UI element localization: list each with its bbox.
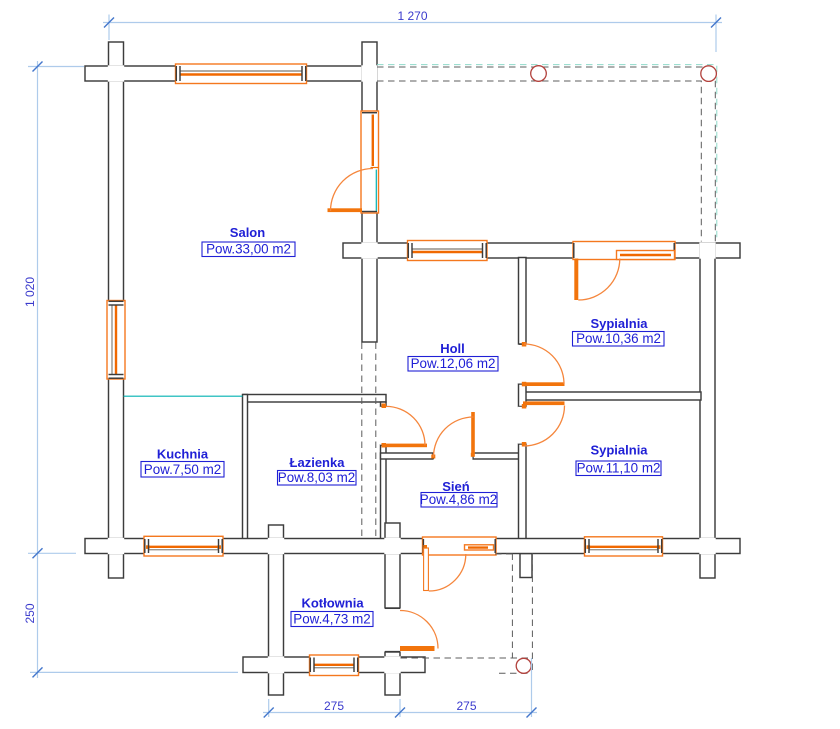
sien hall door bbox=[431, 412, 475, 460]
dimension left line bbox=[37, 61, 39, 678]
dimension top tick left bbox=[104, 18, 114, 28]
terrace top inner gray dashed bbox=[377, 81, 701, 242]
label bedroom2 area box bbox=[576, 461, 661, 476]
dimension top line bbox=[103, 22, 722, 24]
salon terrace door arc bbox=[331, 169, 374, 212]
terrace post circle 1 bbox=[531, 66, 547, 82]
wall sien left bbox=[381, 445, 387, 539]
label bathroom area box bbox=[278, 471, 357, 486]
junction patch mid-right bbox=[699, 242, 715, 258]
salon terrace door and window unit bbox=[361, 111, 379, 213]
junction patch top-left bbox=[108, 65, 124, 81]
dimension top extension left bbox=[108, 15, 110, 41]
terrace bottom gray dashed horizontal short bbox=[495, 553, 512, 555]
svg-text:1 270: 1 270 bbox=[397, 9, 427, 23]
window kitchen bottom bbox=[144, 536, 223, 556]
svg-text:Pow.4,86 m2: Pow.4,86 m2 bbox=[420, 492, 497, 507]
dimension left tick bottom bbox=[33, 667, 43, 677]
label sien area box bbox=[421, 493, 497, 508]
bedroom terrace door leaf bbox=[574, 259, 578, 301]
salon hall virtual boundary dashed bbox=[361, 343, 363, 539]
svg-text:Pow.33,00 m2: Pow.33,00 m2 bbox=[206, 242, 291, 257]
salon terrace door leaf bbox=[328, 208, 363, 212]
wall sien top right part bbox=[473, 453, 519, 459]
label salon area box bbox=[202, 242, 295, 257]
wall stub below sien bbox=[520, 554, 532, 578]
svg-text:Sypialnia: Sypialnia bbox=[590, 316, 648, 331]
window salon top bbox=[176, 64, 307, 84]
kitchen salon boundary cyan line bbox=[124, 395, 243, 397]
dimension left extension bottom bbox=[30, 671, 238, 673]
bedroom1 door bbox=[518, 342, 565, 386]
wall kitchen-bathroom bbox=[243, 395, 248, 540]
terrace bottom post circle bbox=[516, 658, 531, 673]
terrace bottom gray dashed right bbox=[531, 554, 533, 673]
svg-text:275: 275 bbox=[324, 699, 344, 713]
sien exterior door and window unit bbox=[423, 537, 497, 555]
wall boiler right lower bbox=[385, 652, 400, 695]
svg-text:Pow.11,10 m2: Pow.11,10 m2 bbox=[577, 461, 661, 476]
sien exterior door arc bbox=[429, 554, 466, 591]
dimension bottom tick 3 bbox=[527, 708, 537, 718]
wall right exterior bbox=[700, 243, 715, 578]
wall left exterior bbox=[109, 42, 124, 578]
wall bottom exterior bbox=[85, 539, 740, 554]
window bedroom2 bottom bbox=[585, 537, 663, 556]
dimension top extension right bbox=[715, 15, 717, 53]
svg-text:Pow.4,73 m2: Pow.4,73 m2 bbox=[293, 612, 370, 627]
dimension bottom extension 1 bbox=[268, 699, 270, 717]
terrace bottom gray dashed left bbox=[511, 554, 513, 658]
svg-text:Holl: Holl bbox=[440, 341, 465, 356]
terrace bottom gray dashed horizontal bbox=[401, 657, 532, 659]
window boiler bottom bbox=[310, 655, 359, 676]
window salon left bbox=[107, 301, 125, 380]
junction patch bottom-boilerleft bbox=[268, 538, 284, 554]
wall bathroom top bbox=[243, 395, 386, 403]
wall sien top left part bbox=[381, 453, 434, 459]
dimension bottom tick 1 bbox=[264, 708, 274, 718]
wall hall-bedroom upper bbox=[519, 258, 527, 345]
wall bedroom divider bbox=[521, 392, 701, 400]
terrace top teal dashed bbox=[377, 65, 717, 242]
junction patch top-salon bbox=[361, 65, 377, 81]
svg-text:275: 275 bbox=[456, 699, 476, 713]
boiler door bbox=[385, 608, 439, 651]
dimension bottom extension 2 bbox=[399, 699, 401, 717]
terrace top outer gray dashed bbox=[377, 67, 715, 242]
sien exterior door leaf bbox=[424, 548, 429, 591]
dimension left extension middle bbox=[28, 552, 76, 554]
svg-text:250: 250 bbox=[23, 603, 37, 623]
window hall top bbox=[408, 241, 488, 261]
wall salon right lower bbox=[362, 212, 377, 342]
label hall area box bbox=[408, 357, 498, 372]
wall hall-bedroom middle jamb bbox=[519, 384, 527, 407]
wall salon right upper bbox=[362, 42, 377, 112]
bathroom door bbox=[380, 404, 427, 448]
junction patch boilerbottom-right bbox=[384, 656, 400, 673]
wall boiler bottom bbox=[243, 657, 425, 673]
svg-text:Pow.10,36 m2: Pow.10,36 m2 bbox=[576, 331, 661, 346]
wall bathroom door jamb bbox=[381, 402, 387, 407]
wall boiler right upper bbox=[385, 523, 400, 608]
label bedroom1 area box bbox=[573, 332, 665, 347]
dimension bottom tick 2 bbox=[395, 708, 405, 718]
wall middle horizontal bbox=[343, 243, 740, 258]
terrace post circle 2 bbox=[701, 66, 717, 82]
terrace bottom gray dashed bottom edge bbox=[499, 672, 532, 674]
junction patch boilerbottom-left bbox=[268, 656, 284, 673]
svg-text:1 020: 1 020 bbox=[23, 277, 37, 307]
junction patch bottom-left bbox=[108, 538, 124, 554]
svg-text:Łazienka: Łazienka bbox=[290, 455, 346, 470]
junction patch bottom-right bbox=[699, 538, 715, 554]
dimension left tick top bbox=[33, 62, 43, 72]
svg-text:Sypialnia: Sypialnia bbox=[590, 443, 648, 458]
svg-text:Pow.12,06 m2: Pow.12,06 m2 bbox=[411, 356, 496, 371]
label kitchen area box bbox=[141, 462, 224, 478]
wall boiler left bbox=[269, 525, 284, 695]
svg-text:Pow.7,50 m2: Pow.7,50 m2 bbox=[144, 462, 221, 477]
bedroom2 door bbox=[518, 401, 565, 446]
svg-text:Pow.8,03 m2: Pow.8,03 m2 bbox=[278, 470, 355, 485]
bedroom terrace door and window unit bbox=[573, 242, 675, 260]
junction patch mid-salon bbox=[361, 242, 377, 258]
dimension left extension top bbox=[28, 66, 84, 68]
dimension bottom line bbox=[263, 712, 537, 714]
svg-text:Kuchnia: Kuchnia bbox=[157, 447, 209, 462]
junction patch bottom-boilerright bbox=[384, 538, 400, 554]
dimension top tick right bbox=[711, 18, 721, 28]
svg-text:Kotłownia: Kotłownia bbox=[301, 596, 364, 611]
svg-text:Salon: Salon bbox=[230, 225, 265, 240]
wall top exterior bbox=[85, 66, 377, 81]
dimension left tick middle bbox=[33, 548, 43, 558]
bedroom terrace door arc bbox=[578, 259, 620, 301]
dimension bottom extension 3 bbox=[531, 658, 533, 717]
wall hall-bedroom lower bbox=[519, 444, 527, 539]
label boiler area box bbox=[291, 612, 373, 627]
